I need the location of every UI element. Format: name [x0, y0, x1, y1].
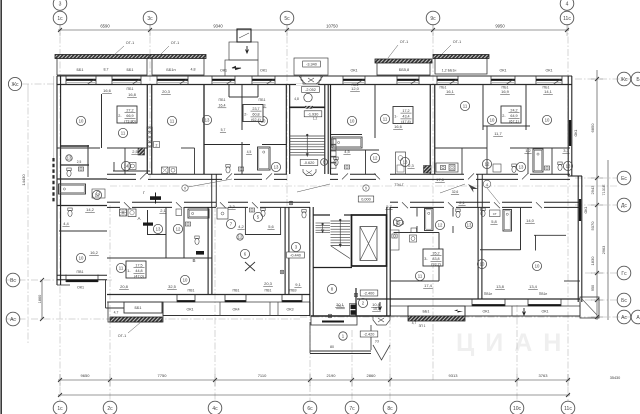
room circle 13 at 207,120 — [202, 115, 211, 124]
axis circle 3 — [53, 0, 67, 10]
apt2 kitchen stove — [162, 167, 169, 174]
sink upper-middle — [344, 165, 349, 169]
svg-text:11,7: 11,7 — [494, 131, 502, 136]
axis circle As right2 — [631, 310, 640, 324]
tub lower-right2 — [503, 210, 512, 232]
room circle 13 at 158,229 — [153, 224, 162, 233]
axis circle 11c bottom — [561, 401, 575, 414]
circle 13 right — [465, 221, 472, 228]
stair shaft wall right upper — [324, 85, 326, 174]
axis circle Bs right — [617, 293, 631, 307]
axis circle 10c bottom — [510, 401, 524, 414]
left wall outer face line — [53, 76, 55, 158]
door leaf — [402, 202, 408, 208]
svg-text:16,4: 16,4 — [219, 104, 226, 108]
svg-text:4с: 4с — [212, 406, 218, 412]
svg-text:1860: 1860 — [38, 295, 42, 303]
svg-text:9313: 9313 — [449, 373, 459, 378]
svg-text:27,2: 27,2 — [126, 108, 133, 112]
stair block wall right lower — [386, 207, 388, 316]
window top 491 — [491, 79, 515, 81]
svg-text:-2.400: -2.400 — [364, 292, 375, 296]
upper bath partition y148 d — [435, 147, 487, 149]
axis line corridor horizontal — [110, 185, 617, 187]
room circle 10 at 263,121 — [258, 116, 267, 125]
sink lower-left — [185, 222, 190, 226]
room circle 10 at 352,121 — [347, 116, 356, 125]
lower party wall x480 — [477, 207, 479, 299]
svg-text:ОК1: ОК1 — [186, 308, 193, 312]
stamp apt 3-83.8 — [423, 249, 443, 266]
stamp apt 2-66.9 — [117, 106, 137, 123]
svg-text:11с: 11с — [564, 406, 572, 412]
refuse chute box outer — [229, 42, 258, 60]
svg-text:ОК3: ОК3 — [286, 308, 293, 312]
window top 66 — [66, 79, 96, 81]
svg-text:9340: 9340 — [213, 24, 223, 29]
svg-text:8,7: 8,7 — [104, 68, 109, 72]
svg-text:11с: 11с — [563, 16, 571, 22]
closet L wall y235 — [534, 234, 566, 236]
axis line Ds horizontal — [575, 204, 617, 206]
right exterior wall upper — [567, 76, 569, 176]
left wall insulation hatch — [52, 158, 54, 202]
svg-text:1с: 1с — [57, 406, 63, 412]
toilet x514 — [512, 164, 516, 167]
svg-text:ПВ1: ПВ1 — [265, 289, 272, 293]
svg-text:-0.440: -0.440 — [290, 254, 301, 258]
stair block wall left lower — [309, 207, 311, 316]
bath wall y150 apt3 — [331, 149, 379, 151]
cross symbol lower-middle — [245, 262, 255, 271]
room circle 15 at 398,222 — [393, 217, 402, 226]
svg-text:12: 12 — [485, 162, 490, 167]
room circle 11 at 123,133 — [118, 128, 127, 137]
partition lower-mid y234.5 — [245, 234, 281, 236]
survey point 2 — [328, 314, 332, 318]
svg-text:2,5: 2,5 — [132, 149, 138, 154]
door leaf — [374, 173, 380, 179]
door leaf — [226, 173, 232, 179]
svg-text:11: 11 — [119, 266, 124, 271]
apt2 wall y148 segment — [181, 147, 195, 149]
svg-text:6с: 6с — [307, 406, 313, 412]
svg-text:3: 3 — [59, 1, 62, 7]
svg-text:0,000: 0,000 — [361, 198, 371, 202]
bottom dimension line 1 — [58, 379, 570, 381]
window arrow right 1 — [379, 302, 382, 310]
svg-text:-2.052: -2.052 — [305, 88, 316, 92]
svg-text:ПБ1: ПБ1 — [127, 87, 134, 91]
svg-text:5,6: 5,6 — [268, 224, 274, 229]
window bottom right 528 — [528, 304, 561, 306]
party wall x204 — [203, 85, 205, 174]
svg-text:35430: 35430 — [610, 376, 621, 380]
porch P1 hatch — [110, 317, 162, 322]
toilet lower-left — [195, 236, 199, 239]
svg-text:13: 13 — [67, 156, 72, 161]
tub upper-middle — [332, 137, 362, 148]
svg-text:11: 11 — [383, 117, 388, 122]
wall y126 x483-530 — [483, 125, 530, 127]
partition lower-mid x245 — [244, 207, 246, 235]
svg-text:ОГ-1: ОГ-1 — [126, 41, 134, 45]
svg-text:4,7: 4,7 — [412, 321, 417, 325]
axis line 6c vertical — [309, 210, 311, 401]
door leaf — [494, 202, 500, 208]
svg-text:ОК1: ОК1 — [350, 69, 357, 73]
axis circle 8c bottom — [383, 401, 397, 414]
svg-text:ОК4: ОК4 — [232, 308, 239, 312]
svg-text:10: 10 — [490, 118, 495, 123]
svg-text:13: 13 — [274, 165, 279, 170]
room circle 14 at 126,166 — [121, 161, 130, 170]
stair bottom porch symbol — [303, 169, 316, 176]
svg-text:5,7: 5,7 — [386, 204, 392, 209]
axis line left vertical — [27, 95, 29, 345]
axis circle 7c bottom — [345, 401, 359, 414]
kitchen sink box apt1 — [129, 163, 136, 170]
svg-text:ОК1: ОК1 — [574, 130, 578, 137]
toilet upper-right — [558, 162, 562, 165]
lobby elevation -2.400 — [360, 290, 378, 296]
svg-text:(47,0): (47,0) — [134, 274, 144, 278]
window top 437 — [437, 79, 458, 81]
partition x242 upper — [241, 85, 243, 130]
svg-text:6850: 6850 — [590, 123, 595, 133]
axis line 11c vertical — [567, 24, 569, 401]
axis circle 4 — [560, 0, 574, 10]
toilet x228 — [226, 165, 230, 168]
axis line 3c vertical — [149, 24, 151, 178]
room circle 3 at 296,247 — [291, 242, 300, 251]
svg-text:А: А — [636, 315, 640, 321]
axis line As-left horizontal — [6, 318, 300, 320]
axis circle Es right — [617, 171, 631, 185]
svg-text:13: 13 — [403, 160, 408, 165]
lower party wall x287 — [284, 207, 286, 294]
door leaf — [448, 202, 454, 208]
porch circle 1 — [339, 332, 347, 340]
svg-text:4,2: 4,2 — [238, 224, 244, 229]
entry porch elevation — [303, 61, 321, 67]
elevation -0.440 — [287, 252, 305, 258]
svg-text:ОГ-1: ОГ-1 — [400, 40, 408, 44]
svg-text:СТ: СТ — [493, 212, 497, 216]
svg-text:7110: 7110 — [258, 373, 267, 378]
svg-text:9650: 9650 — [81, 373, 91, 378]
svg-text:3,3: 3,3 — [229, 204, 235, 209]
svg-text:4,8: 4,8 — [294, 97, 299, 101]
bottom wall left outer line — [107, 301, 310, 303]
svg-text:2,3: 2,3 — [408, 163, 414, 168]
section mark B — [196, 251, 204, 255]
svg-text:64,9: 64,9 — [510, 114, 517, 118]
small box x411 — [411, 228, 417, 233]
room circle 10 at 81,258 — [76, 253, 85, 262]
party wall x439 — [438, 233, 440, 282]
axis circle 11c top — [560, 11, 574, 25]
svg-text:12: 12 — [238, 235, 243, 240]
axis line 7c vertical — [351, 330, 353, 401]
left section bath wall y165 — [61, 164, 89, 166]
sink upper-left — [78, 167, 83, 171]
corridor segment x480 — [477, 174, 479, 207]
svg-text:1с: 1с — [57, 16, 63, 22]
tub left section — [59, 184, 86, 194]
bath wall x147.5 lower — [147, 210, 149, 235]
toilet x304 — [302, 210, 306, 213]
svg-text:80: 80 — [330, 345, 334, 349]
room circle 10 at 185,280 — [180, 275, 189, 284]
kitchen counter apt3 — [396, 152, 406, 174]
marker box 2 — [154, 142, 160, 148]
lower partition y281 right — [390, 280, 439, 282]
corridor leader 2 — [297, 184, 330, 192]
closet L wall x535 — [535, 235, 537, 250]
porch slab outline — [309, 322, 311, 353]
lobby bottom wall y316 — [311, 315, 390, 317]
window top 343 — [343, 79, 365, 81]
corridor gas mark — [150, 196, 161, 200]
window bottom 225 — [225, 300, 246, 302]
svg-text:ПБ1: ПБ1 — [259, 98, 266, 102]
party wall x330 upper — [330, 85, 332, 174]
kitchen lower-left stove — [120, 209, 127, 216]
small circle 12 leader — [237, 234, 243, 240]
axis circle 3c — [143, 11, 157, 25]
svg-text:83,8: 83,8 — [432, 257, 439, 261]
svg-text:3763: 3763 — [539, 373, 549, 378]
axis line 2c vertical — [109, 205, 111, 401]
vent hatch right — [424, 166, 432, 174]
svg-text:ББ1: ББ1 — [76, 68, 83, 72]
window bottom 177 — [177, 300, 195, 302]
svg-text:(47,8): (47,8) — [401, 120, 411, 124]
door leaf — [266, 173, 272, 179]
room circle 11 at 420,276 — [415, 271, 424, 280]
bottom-right porch box — [580, 297, 599, 318]
left section step outline — [105, 280, 107, 308]
svg-text:ОГ-1: ОГ-1 — [171, 41, 179, 45]
lower partition y258 left-block — [107, 257, 167, 259]
svg-text:12: 12 — [176, 227, 181, 232]
svg-text:9: 9 — [184, 187, 186, 191]
stair porch elevation — [360, 331, 378, 337]
svg-text:16,2: 16,2 — [90, 250, 99, 255]
toilet upper-left — [67, 168, 71, 171]
window top 536 — [536, 79, 562, 81]
refuse chute box lower — [225, 60, 258, 76]
svg-text:-2.420: -2.420 — [364, 333, 375, 337]
tub lower-left — [188, 209, 209, 218]
stair hall top wall — [313, 214, 330, 216]
balcony BB1 bottom-right box — [408, 306, 465, 316]
svg-text:А: А — [137, 216, 140, 221]
svg-text:Вс: Вс — [10, 278, 16, 284]
chute shaft walls — [228, 85, 230, 97]
svg-text:4: 4 — [566, 1, 569, 7]
svg-text:5,7: 5,7 — [221, 128, 226, 132]
stamp apt 1-44.8 — [126, 261, 146, 278]
left section bottom wall — [57, 274, 107, 276]
top dimension line — [58, 29, 569, 31]
door leaf — [522, 173, 528, 179]
axis circle Zhs right — [617, 72, 631, 86]
svg-text:16,6: 16,6 — [394, 124, 403, 129]
svg-text:6590: 6590 — [100, 24, 110, 29]
corridor bottom wall — [107, 201, 120, 203]
svg-text:ПВ1н: ПВ1н — [484, 292, 493, 296]
upper bath partition y148 e — [510, 147, 570, 149]
svg-text:8с: 8с — [387, 406, 393, 412]
kitchen left section — [92, 189, 105, 198]
svg-text:11: 11 — [418, 274, 423, 279]
kitchen box x497 — [493, 164, 501, 172]
stair top hexagon — [299, 76, 323, 84]
svg-text:3с: 3с — [147, 16, 153, 22]
entry porch top-center box — [294, 58, 328, 75]
corridor end segment x214 — [211, 174, 213, 207]
room circle 10 at 81,121 — [76, 116, 85, 125]
bath wall y235 lower — [148, 234, 167, 236]
bath walls x417 — [416, 208, 418, 217]
svg-text:Ес: Ес — [621, 176, 627, 182]
svg-text:4,7: 4,7 — [114, 311, 119, 315]
stair top circle — [304, 93, 312, 101]
niche line y281 right wall — [564, 280, 580, 282]
room circle 12 at 97,195 — [92, 190, 101, 199]
svg-text:20,1: 20,1 — [336, 302, 345, 307]
partition lower-mid x280.6 — [280, 207, 282, 235]
stair entrance porch — [311, 316, 357, 325]
toilet box lower — [176, 209, 182, 216]
right dimension line — [596, 70, 598, 320]
svg-text:ОК1: ОК1 — [545, 69, 552, 73]
svg-text:3,3: 3,3 — [563, 148, 569, 153]
svg-text:14,2: 14,2 — [86, 207, 95, 212]
bottom porch strip left — [163, 315, 310, 317]
window top 252 — [252, 79, 275, 81]
svg-text:4,4: 4,4 — [63, 221, 69, 226]
bath wall y134 apt3 — [331, 134, 362, 136]
toilet x483 — [481, 208, 485, 211]
svg-text:Гс: Гс — [621, 271, 627, 277]
svg-text:60,8: 60,8 — [252, 113, 259, 117]
partition x526 upper — [525, 85, 527, 130]
axis line 5c vertical — [286, 24, 288, 210]
upper-left apartment inner wall — [57, 147, 100, 149]
lower party wall x166 — [165, 207, 167, 258]
toilet lower-mid — [261, 208, 265, 211]
axis circle 2c bottom — [103, 401, 117, 414]
room circle 2 at 363,303 — [358, 298, 367, 307]
vent circles x149 — [147, 127, 152, 147]
sink lower-mid — [249, 208, 254, 212]
svg-text:24,2: 24,2 — [510, 108, 517, 112]
svg-text:11: 11 — [121, 131, 126, 136]
axis line Zhs horizontal — [575, 78, 631, 80]
room circle 13 at 568,166 — [563, 161, 572, 170]
svg-text:17,6: 17,6 — [436, 177, 445, 182]
svg-text:44,8: 44,8 — [135, 269, 142, 273]
svg-text:2963: 2963 — [602, 246, 606, 254]
svg-text:2190: 2190 — [327, 373, 337, 378]
svg-text:Бс: Бс — [621, 298, 627, 304]
svg-text:10: 10 — [79, 256, 84, 261]
sink upper-right — [544, 166, 549, 170]
axis circle 1c bottom — [53, 401, 67, 414]
room circle 12 at 487,164 — [482, 159, 491, 168]
svg-text:7750: 7750 — [158, 373, 168, 378]
bottom wall right room line — [357, 298, 580, 300]
svg-text:32,5: 32,5 — [168, 284, 177, 289]
room circle 10 at 537,266 — [532, 261, 541, 270]
svg-text:17,5: 17,5 — [135, 263, 142, 267]
survey circle a — [289, 201, 293, 205]
svg-text:ОК1: ОК1 — [584, 207, 588, 214]
svg-text:В: В — [192, 258, 195, 263]
left section window — [66, 280, 98, 282]
axis line 8c vertical — [389, 305, 391, 401]
svg-text:-0.620: -0.620 — [304, 161, 315, 165]
tub lower-right — [425, 209, 434, 231]
axis line 9c vertical — [432, 24, 434, 380]
svg-text:11: 11 — [170, 119, 175, 124]
shower lower-mid — [217, 208, 228, 219]
svg-text:(67,1): (67,1) — [509, 119, 519, 123]
svg-text:1,2: 1,2 — [525, 148, 531, 153]
svg-text:УЗ: УЗ — [375, 340, 379, 344]
left section bath wall x88 — [87, 145, 89, 177]
svg-text:35,2: 35,2 — [432, 251, 439, 255]
left section wall y231 — [59, 230, 107, 232]
axis line 4c vertical — [214, 205, 216, 401]
window arrow right 3 — [523, 308, 526, 315]
kitchen upper-right a — [436, 163, 458, 172]
svg-text:14: 14 — [124, 164, 129, 169]
tub vertical apt2 — [258, 147, 271, 170]
svg-text:5с: 5с — [284, 16, 290, 22]
svg-text:10: 10 — [79, 119, 84, 124]
svg-text:20,3: 20,3 — [162, 89, 171, 94]
lower partition x520 — [520, 207, 522, 250]
axis circle As right — [617, 310, 631, 324]
window top 157 — [157, 79, 188, 81]
refuse chute box inner — [237, 29, 251, 42]
partition upper x100 — [101, 94, 103, 148]
axis circle Gs right — [617, 266, 631, 280]
room circle 12 at 440,225 — [435, 220, 444, 229]
svg-text:ПБ1: ПБ1 — [219, 98, 226, 102]
axis circle 1c — [53, 11, 67, 25]
svg-text:13: 13 — [519, 165, 524, 170]
room circle 10 at 482,264 — [477, 259, 486, 268]
svg-text:10: 10 — [535, 264, 540, 269]
balcony BB5.8 — [377, 62, 430, 75]
room circle 13 at 405,162 — [400, 157, 409, 166]
room circle 7 at 231,224 — [226, 219, 235, 228]
stair mid elevation — [304, 111, 322, 117]
sink box ST — [490, 210, 501, 217]
kitchen wall x115 apt1 — [113, 162, 115, 171]
svg-text:1830: 1830 — [590, 256, 595, 266]
door leaf — [176, 202, 182, 208]
upper stair flight — [290, 135, 326, 137]
svg-text:-3.340: -3.340 — [306, 63, 317, 67]
svg-text:ББ5,8: ББ5,8 — [399, 68, 409, 72]
balcony BB1 bottom-left box — [124, 302, 162, 313]
